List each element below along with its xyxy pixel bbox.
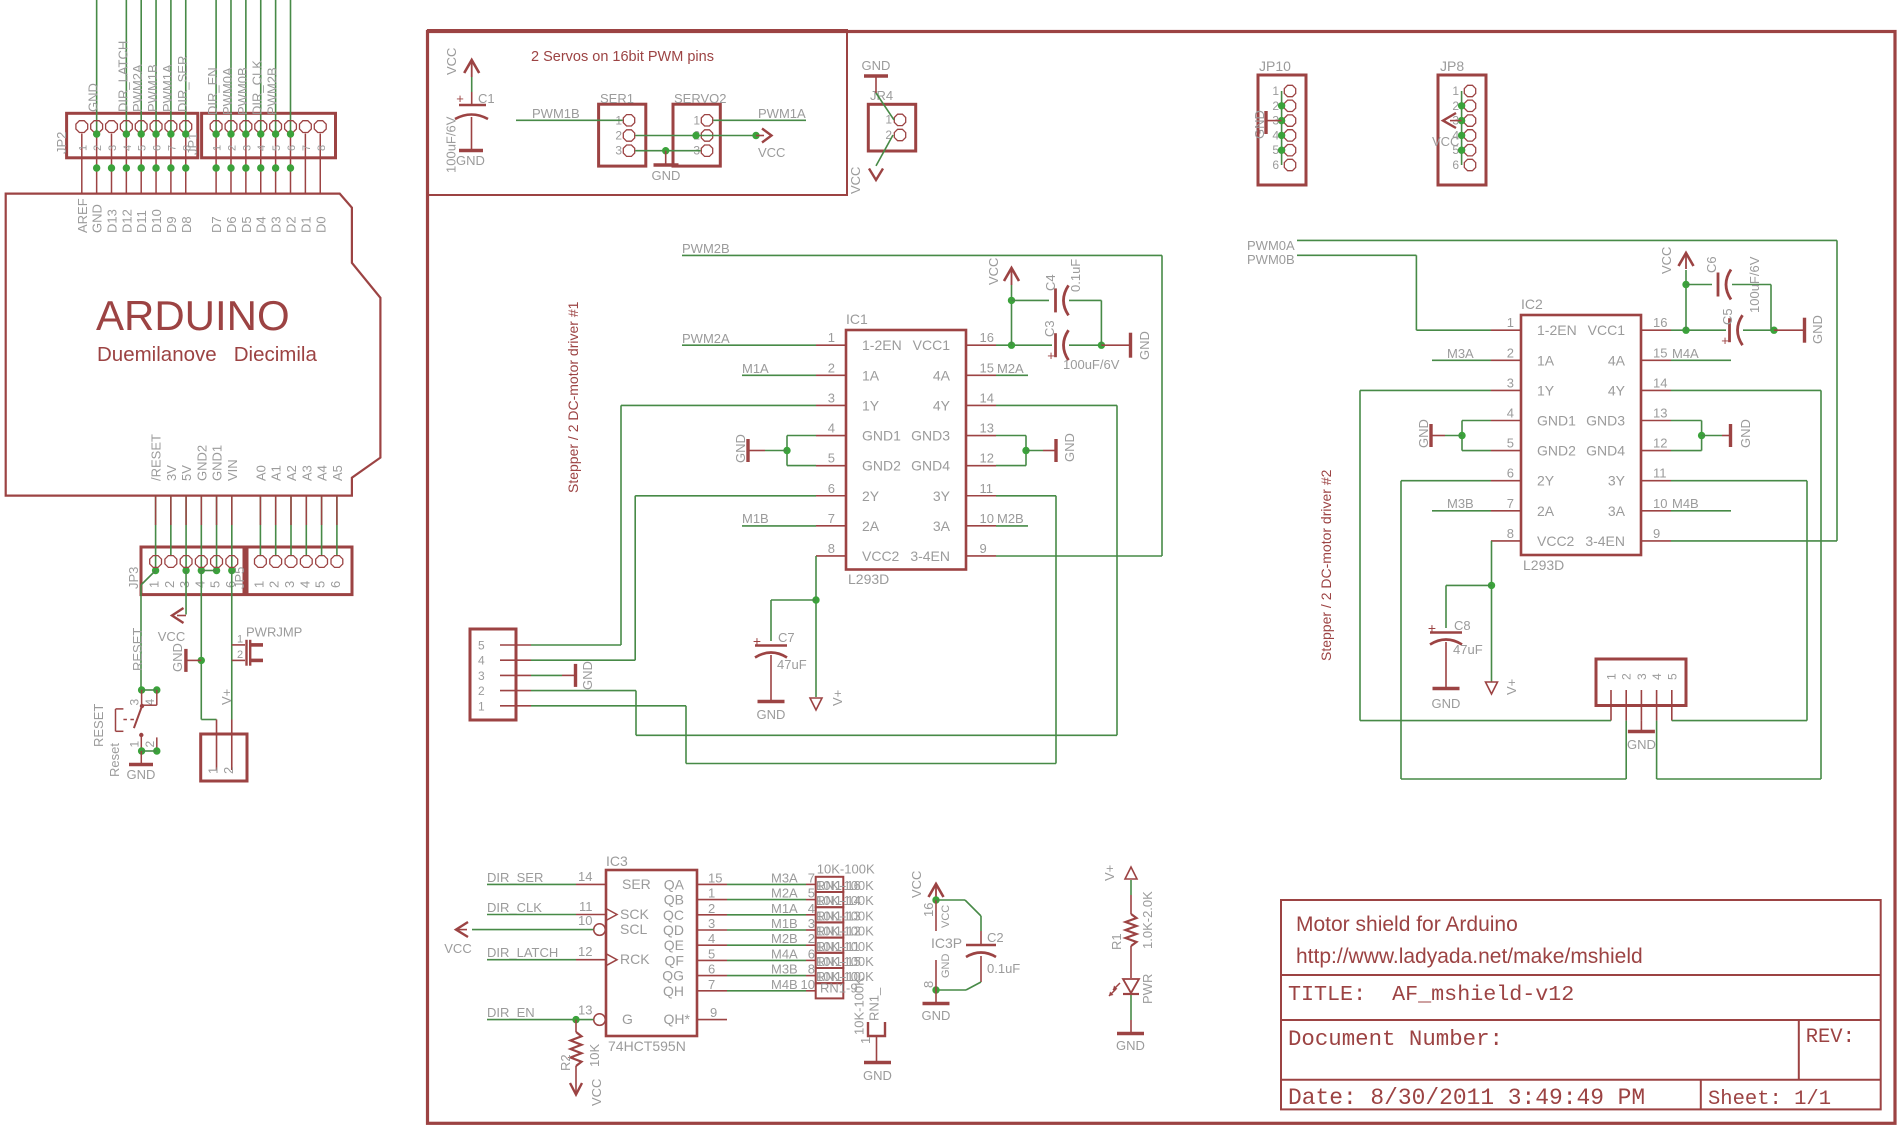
svg-text:13: 13	[1653, 406, 1667, 421]
svg-text:QA: QA	[664, 876, 685, 892]
svg-text:2Y: 2Y	[862, 488, 880, 504]
svg-text:DIR_EN: DIR_EN	[487, 1005, 535, 1020]
svg-text:3: 3	[708, 916, 715, 931]
svg-text:Document Number:: Document Number:	[1288, 1026, 1503, 1052]
svg-text:GND: GND	[456, 153, 485, 168]
svg-text:IC3P: IC3P	[931, 935, 962, 951]
svg-text:3Y: 3Y	[1608, 473, 1626, 489]
svg-text:SER1: SER1	[600, 91, 634, 106]
svg-text:6: 6	[808, 946, 815, 961]
svg-text:QB: QB	[664, 892, 684, 908]
svg-text:VCC2: VCC2	[1537, 533, 1575, 549]
svg-text:D8: D8	[179, 216, 194, 233]
svg-text:L293D: L293D	[1523, 557, 1564, 573]
svg-text:/RESET: /RESET	[149, 434, 164, 481]
svg-text:VCC1: VCC1	[913, 337, 951, 353]
svg-text:A3: A3	[299, 465, 314, 481]
svg-text:7: 7	[166, 145, 178, 151]
svg-text:3: 3	[282, 581, 297, 588]
svg-text:M1A: M1A	[742, 361, 769, 376]
svg-text:GND: GND	[1416, 419, 1431, 448]
svg-text:4: 4	[192, 581, 207, 588]
svg-text:GND: GND	[940, 954, 952, 979]
svg-text:PWM2B: PWM2B	[265, 67, 280, 115]
svg-text:3: 3	[808, 916, 815, 931]
svg-text:C6: C6	[1704, 256, 1719, 273]
svg-text:10K-100K: 10K-100K	[816, 878, 874, 893]
svg-text:GND: GND	[1627, 737, 1656, 752]
svg-text:QG: QG	[662, 968, 684, 984]
svg-text:D1: D1	[298, 216, 313, 233]
svg-text:GND3: GND3	[1586, 413, 1625, 429]
svg-text:8: 8	[181, 145, 193, 151]
svg-text:74HCT595N: 74HCT595N	[608, 1038, 686, 1054]
svg-text:6: 6	[223, 581, 238, 588]
svg-text:1: 1	[1452, 84, 1459, 98]
svg-text:GND2: GND2	[1537, 443, 1576, 459]
svg-text:A1: A1	[269, 465, 284, 481]
svg-text:1: 1	[237, 634, 243, 646]
svg-text:1: 1	[1605, 673, 1619, 680]
svg-text:4: 4	[1507, 406, 1514, 421]
svg-text:D6: D6	[224, 216, 239, 233]
svg-text:M2B: M2B	[997, 511, 1024, 526]
svg-text:2: 2	[828, 360, 835, 375]
svg-text:2: 2	[226, 145, 238, 151]
svg-text:2 Servos on 16bit PWM pins: 2 Servos on 16bit PWM pins	[531, 49, 714, 65]
svg-text:GND4: GND4	[911, 458, 950, 474]
svg-text:PWM2A: PWM2A	[682, 331, 730, 346]
svg-text:8: 8	[316, 145, 328, 151]
svg-text:6: 6	[1272, 158, 1279, 172]
svg-text:1: 1	[858, 1037, 873, 1044]
svg-text:PWRJMP: PWRJMP	[246, 625, 302, 640]
svg-text:PWM1B: PWM1B	[145, 64, 160, 112]
svg-text:15: 15	[980, 360, 994, 375]
svg-text:PWM0B: PWM0B	[235, 67, 250, 115]
svg-text:D13: D13	[105, 209, 120, 233]
svg-text:8: 8	[828, 541, 835, 556]
svg-text:5: 5	[137, 145, 149, 151]
svg-text:3V: 3V	[164, 465, 179, 481]
svg-text:M4B: M4B	[771, 977, 798, 992]
svg-text:V+: V+	[219, 689, 234, 705]
svg-text:1: 1	[251, 581, 266, 588]
svg-text:4: 4	[808, 901, 815, 916]
svg-text:M1A: M1A	[771, 901, 798, 916]
svg-text:C2: C2	[987, 930, 1004, 945]
svg-text:PWM1A: PWM1A	[758, 106, 806, 121]
svg-text:JP8: JP8	[1440, 58, 1464, 74]
svg-text:6: 6	[1507, 466, 1514, 481]
svg-text:QD: QD	[663, 922, 684, 938]
svg-text:VIN: VIN	[225, 459, 240, 481]
svg-text:10: 10	[1653, 496, 1667, 511]
svg-text:RESET: RESET	[130, 628, 145, 671]
svg-text:2: 2	[1620, 673, 1634, 680]
svg-text:GND: GND	[90, 204, 105, 233]
svg-text:6: 6	[708, 962, 715, 977]
svg-text:1A: 1A	[1537, 352, 1555, 368]
svg-text:4: 4	[708, 931, 715, 946]
svg-text:GND: GND	[1137, 331, 1152, 360]
svg-text:TITLE: AF_mshield-v12: TITLE: AF_mshield-v12	[1288, 982, 1574, 1007]
svg-text:3Y: 3Y	[933, 488, 951, 504]
svg-text:Reset: Reset	[107, 743, 122, 777]
svg-text:2: 2	[162, 581, 177, 588]
svg-text:C7: C7	[778, 630, 795, 645]
svg-text:4A: 4A	[933, 367, 951, 383]
svg-text:A0: A0	[253, 465, 268, 481]
svg-text:M3B: M3B	[1447, 496, 1474, 511]
svg-text:R1: R1	[1109, 933, 1124, 950]
svg-text:7: 7	[1507, 496, 1514, 511]
svg-text:PWM0A: PWM0A	[1247, 238, 1295, 253]
svg-text:5: 5	[271, 145, 283, 151]
svg-text:M4A: M4A	[1672, 346, 1699, 361]
svg-text:VCC: VCC	[589, 1079, 604, 1106]
svg-text:8: 8	[921, 981, 936, 988]
svg-text:D2: D2	[284, 216, 299, 233]
svg-text:C1: C1	[478, 91, 495, 106]
svg-text:2: 2	[267, 581, 282, 588]
svg-text:12: 12	[1653, 436, 1667, 451]
svg-text:6: 6	[1452, 158, 1459, 172]
svg-text:4: 4	[828, 421, 835, 436]
svg-text:PWR: PWR	[1140, 974, 1155, 1004]
svg-text:2: 2	[143, 741, 157, 748]
svg-text:C8: C8	[1454, 618, 1471, 633]
svg-text:GND: GND	[1810, 315, 1825, 344]
svg-text:PWM1B: PWM1B	[532, 106, 580, 121]
svg-text:1: 1	[828, 330, 835, 345]
svg-text:3: 3	[177, 581, 192, 588]
svg-text:JP3: JP3	[126, 567, 141, 589]
svg-text:1: 1	[693, 113, 700, 127]
svg-text:M4A: M4A	[771, 946, 798, 961]
svg-text:14: 14	[980, 390, 994, 405]
svg-text:13: 13	[980, 421, 994, 436]
svg-text:9: 9	[710, 1005, 717, 1020]
svg-text:D7: D7	[209, 216, 224, 233]
svg-text:V+: V+	[1504, 679, 1519, 695]
svg-text:GND: GND	[1738, 419, 1753, 448]
svg-text:16: 16	[980, 330, 994, 345]
svg-text:6: 6	[828, 481, 835, 496]
svg-text:16: 16	[1653, 315, 1667, 330]
svg-text:4Y: 4Y	[933, 397, 951, 413]
svg-text:2Y: 2Y	[1537, 473, 1555, 489]
svg-text:4: 4	[1650, 673, 1664, 680]
svg-text:+: +	[1047, 348, 1055, 363]
svg-text:VCC: VCC	[444, 941, 471, 956]
svg-text:10K-100K: 10K-100K	[852, 977, 867, 1035]
svg-text:SCK: SCK	[620, 906, 649, 922]
svg-text:M2B: M2B	[771, 931, 798, 946]
svg-text:VCC: VCC	[1659, 247, 1674, 274]
svg-text:14: 14	[578, 869, 592, 884]
svg-text:15: 15	[708, 870, 722, 885]
svg-text:M2A: M2A	[997, 361, 1024, 376]
svg-text:10: 10	[578, 913, 592, 928]
svg-text:GND: GND	[1062, 433, 1077, 462]
svg-text:2: 2	[808, 931, 815, 946]
svg-text:2: 2	[221, 767, 236, 774]
svg-text:DIR_CLK: DIR_CLK	[487, 900, 542, 915]
svg-text:RCK: RCK	[620, 951, 650, 967]
svg-text:IC3: IC3	[606, 853, 628, 869]
svg-text:0.1uF: 0.1uF	[987, 961, 1020, 976]
svg-text:3: 3	[128, 699, 142, 706]
svg-text:QF: QF	[665, 952, 684, 968]
svg-text:VCC: VCC	[444, 48, 459, 75]
svg-text:DIR_SER: DIR_SER	[487, 870, 543, 885]
svg-text:VCC: VCC	[848, 167, 863, 194]
svg-text:VCC: VCC	[986, 258, 1001, 285]
svg-text:1Y: 1Y	[1537, 382, 1555, 398]
svg-text:3: 3	[1507, 375, 1514, 390]
svg-text:4Y: 4Y	[1608, 382, 1626, 398]
svg-text:6: 6	[328, 581, 343, 588]
svg-text:PWM0B: PWM0B	[1247, 252, 1295, 267]
svg-text:7: 7	[828, 511, 835, 526]
svg-text:3A: 3A	[933, 518, 951, 534]
svg-text:Stepper / 2 DC-motor driver #2: Stepper / 2 DC-motor driver #2	[1318, 469, 1334, 661]
svg-text:10K-100K: 10K-100K	[817, 862, 875, 877]
svg-text:VCC: VCC	[758, 145, 785, 160]
svg-text:3: 3	[478, 669, 485, 683]
svg-text:GND4: GND4	[1586, 443, 1625, 459]
svg-text:GND: GND	[863, 1068, 892, 1083]
svg-text:1-2EN: 1-2EN	[862, 337, 902, 353]
svg-text:15: 15	[1653, 345, 1667, 360]
svg-text:11: 11	[579, 899, 593, 914]
svg-text:M1B: M1B	[771, 916, 798, 931]
svg-text:M3A: M3A	[771, 870, 798, 885]
svg-text:7: 7	[708, 977, 715, 992]
svg-text:3: 3	[615, 144, 622, 158]
svg-text:GND1: GND1	[1537, 413, 1576, 429]
svg-text:10K-100K: 10K-100K	[816, 908, 874, 923]
svg-text:4: 4	[297, 581, 312, 588]
svg-text:7: 7	[808, 870, 815, 885]
svg-text:13: 13	[578, 1003, 592, 1018]
svg-text:GND: GND	[862, 58, 891, 73]
svg-text:VCC: VCC	[909, 871, 924, 898]
svg-text:3: 3	[107, 145, 119, 151]
svg-text:D10: D10	[149, 209, 164, 233]
svg-text:3: 3	[1635, 673, 1649, 680]
svg-text:2A: 2A	[862, 518, 880, 534]
svg-text:GND1: GND1	[210, 445, 225, 481]
svg-text:Date: 8/30/2011 3:49:49 PM: Date: 8/30/2011 3:49:49 PM	[1288, 1085, 1645, 1111]
svg-text:1: 1	[478, 699, 485, 713]
svg-text:1: 1	[212, 145, 224, 151]
svg-text:VCC: VCC	[1432, 134, 1459, 149]
svg-text:GND: GND	[652, 168, 681, 183]
svg-text:4: 4	[256, 145, 268, 151]
svg-text:0.1uF: 0.1uF	[1068, 259, 1083, 292]
svg-text:5: 5	[478, 639, 485, 653]
svg-text:QC: QC	[663, 907, 684, 923]
svg-text:1: 1	[128, 741, 142, 748]
svg-text:QH: QH	[663, 983, 684, 999]
svg-text:5: 5	[808, 886, 815, 901]
svg-text:5: 5	[1507, 436, 1514, 451]
svg-text:D9: D9	[164, 216, 179, 233]
svg-text:PWM2A: PWM2A	[130, 64, 145, 112]
svg-text:V+: V+	[1102, 865, 1117, 881]
svg-text:GND: GND	[1432, 696, 1461, 711]
svg-text:4A: 4A	[1608, 352, 1626, 368]
svg-text:GND2: GND2	[194, 445, 209, 481]
svg-text:2: 2	[237, 649, 243, 661]
svg-text:47uF: 47uF	[777, 657, 807, 672]
svg-text:M4B: M4B	[1672, 496, 1699, 511]
svg-text:11: 11	[1653, 466, 1667, 481]
svg-text:DIR_CLK: DIR_CLK	[250, 60, 265, 115]
svg-text:5: 5	[208, 581, 223, 588]
svg-text:D4: D4	[254, 216, 269, 233]
svg-text:5V: 5V	[179, 465, 194, 481]
svg-text:D0: D0	[313, 216, 328, 233]
svg-text:ARDUINO: ARDUINO	[96, 292, 290, 339]
svg-text:Sheet: 1/1: Sheet: 1/1	[1708, 1088, 1831, 1111]
svg-text:6: 6	[286, 145, 298, 151]
svg-text:10K-100K: 10K-100K	[816, 954, 874, 969]
svg-text:GND2: GND2	[862, 458, 901, 474]
svg-text:4: 4	[122, 145, 134, 151]
svg-text:10K: 10K	[587, 1044, 602, 1067]
svg-text:47uF: 47uF	[1453, 642, 1483, 657]
svg-text:12: 12	[980, 451, 994, 466]
svg-text:M2A: M2A	[771, 886, 798, 901]
svg-text:GND: GND	[86, 83, 101, 112]
svg-text:1: 1	[708, 886, 715, 901]
svg-text:VCC1: VCC1	[1588, 322, 1626, 338]
svg-text:A4: A4	[315, 465, 330, 481]
svg-text:14: 14	[1653, 375, 1667, 390]
svg-text:11: 11	[980, 481, 994, 496]
svg-text:5: 5	[828, 451, 835, 466]
svg-text:5: 5	[313, 581, 328, 588]
svg-text:10K-100K: 10K-100K	[816, 939, 874, 954]
svg-text:GND1: GND1	[862, 428, 901, 444]
svg-text:1: 1	[206, 767, 221, 774]
svg-text:1: 1	[1507, 315, 1514, 330]
svg-text:VCC2: VCC2	[862, 548, 900, 564]
svg-text:GND: GND	[127, 767, 156, 782]
svg-text:1.0K-2.0K: 1.0K-2.0K	[1140, 891, 1155, 949]
svg-text:2: 2	[1507, 345, 1514, 360]
svg-text:PWM0A: PWM0A	[220, 67, 235, 115]
svg-text:1-2EN: 1-2EN	[1537, 322, 1577, 338]
svg-text:10: 10	[980, 511, 994, 526]
svg-text:D11: D11	[134, 210, 149, 233]
svg-text:Stepper / 2 DC-motor driver #1: Stepper / 2 DC-motor driver #1	[565, 301, 581, 493]
svg-text:JP2: JP2	[54, 132, 69, 154]
svg-text:SCL: SCL	[620, 921, 647, 937]
svg-text:10K-100K: 10K-100K	[816, 893, 874, 908]
svg-text:M3B: M3B	[771, 962, 798, 977]
svg-text:SERVO2: SERVO2	[674, 91, 727, 106]
svg-text:GND: GND	[757, 707, 786, 722]
svg-text:IC1: IC1	[846, 311, 868, 327]
svg-text:3-4EN: 3-4EN	[1585, 533, 1625, 549]
svg-text:L293D: L293D	[848, 571, 889, 587]
svg-text:2: 2	[708, 901, 715, 916]
svg-text:C3: C3	[1042, 320, 1057, 337]
svg-text:Duemilanove Diecimila: Duemilanove Diecimila	[97, 343, 317, 366]
svg-text:100uF/6V: 100uF/6V	[1063, 357, 1120, 372]
svg-text:+: +	[1721, 333, 1729, 348]
svg-text:V+: V+	[830, 690, 845, 706]
svg-text:1: 1	[147, 581, 162, 588]
svg-text:GND: GND	[1252, 110, 1267, 139]
svg-text:REV:: REV:	[1806, 1026, 1855, 1049]
svg-text:SER: SER	[622, 876, 651, 892]
svg-text:http://www.ladyada.net/make/ms: http://www.ladyada.net/make/mshield	[1296, 945, 1643, 968]
svg-text:5: 5	[1665, 673, 1679, 680]
svg-text:A5: A5	[330, 465, 345, 481]
svg-text:7: 7	[301, 145, 313, 151]
svg-text:1: 1	[1272, 84, 1279, 98]
svg-text:RN1_: RN1_	[866, 987, 881, 1021]
svg-text:10K-100K: 10K-100K	[816, 924, 874, 939]
svg-text:10: 10	[801, 977, 815, 992]
svg-text:C4: C4	[1043, 274, 1058, 291]
svg-text:2A: 2A	[1537, 503, 1555, 519]
svg-text:D3: D3	[269, 216, 284, 233]
svg-text:G: G	[622, 1011, 633, 1027]
svg-text:2: 2	[615, 129, 622, 143]
svg-text:2: 2	[92, 145, 104, 151]
svg-text:QE: QE	[664, 937, 684, 953]
svg-text:VCC: VCC	[158, 629, 185, 644]
svg-text:GND: GND	[170, 643, 185, 672]
svg-text:2: 2	[885, 128, 892, 142]
svg-text:1A: 1A	[862, 367, 880, 383]
svg-text:PWM2B: PWM2B	[682, 241, 730, 256]
svg-text:DIR_SER: DIR_SER	[175, 56, 190, 112]
svg-text:Motor shield for Arduino: Motor shield for Arduino	[1296, 913, 1518, 936]
svg-text:3-4EN: 3-4EN	[910, 548, 950, 564]
svg-text:C5: C5	[1720, 308, 1735, 325]
svg-text:PWM1A: PWM1A	[160, 64, 175, 112]
svg-text:GND: GND	[733, 434, 748, 463]
svg-text:1Y: 1Y	[862, 397, 880, 413]
svg-text:2: 2	[478, 684, 485, 698]
svg-text:QH*: QH*	[664, 1011, 691, 1027]
svg-text:12: 12	[578, 944, 592, 959]
svg-text:DIR_LATCH: DIR_LATCH	[115, 41, 130, 112]
svg-text:DIR_EN: DIR_EN	[205, 67, 220, 115]
svg-text:GND: GND	[580, 661, 595, 690]
svg-text:AREF: AREF	[75, 198, 90, 233]
svg-text:R2: R2	[558, 1054, 573, 1071]
svg-text:GND: GND	[922, 1008, 951, 1023]
svg-text:6: 6	[152, 145, 164, 151]
svg-text:3: 3	[241, 145, 253, 151]
svg-text:16: 16	[921, 903, 936, 917]
svg-text:5: 5	[708, 946, 715, 961]
svg-text:3: 3	[828, 390, 835, 405]
svg-text:IC2: IC2	[1521, 296, 1543, 312]
svg-text:JP10: JP10	[1259, 58, 1291, 74]
svg-text:DIR_LATCH: DIR_LATCH	[487, 945, 558, 960]
svg-text:VCC: VCC	[940, 905, 952, 928]
svg-text:9: 9	[980, 541, 987, 556]
